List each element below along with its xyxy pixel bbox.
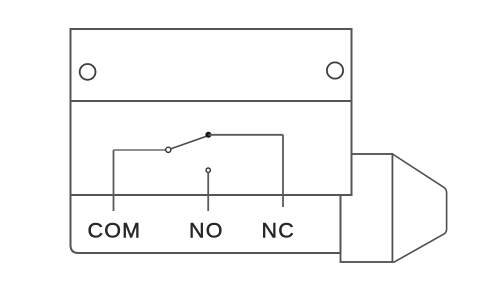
wire NC vertical — [282, 135, 284, 207]
mounting hole left — [80, 64, 96, 80]
switch lever — [171, 136, 207, 149]
NO contact circle — [206, 168, 210, 172]
wire COM horizontal — [114, 149, 166, 151]
terminal block (rounded bottom box) — [71, 195, 341, 253]
actuator bracket (right rectangle) — [341, 154, 393, 262]
wire NC horizontal — [208, 134, 283, 136]
wire NO vertical — [207, 173, 209, 211]
actuator cone (bullet shape) — [393, 154, 447, 262]
svg-text:COM: COM — [88, 219, 142, 243]
svg-text:NO: NO — [189, 219, 224, 243]
svg-text:NC: NC — [262, 219, 295, 243]
switch pivot contact — [166, 147, 171, 152]
wire COM vertical — [113, 150, 115, 211]
junction dot (NC contact) — [205, 132, 211, 138]
switch body lower section — [71, 101, 352, 195]
switch body top plate — [71, 29, 352, 101]
mounting hole right — [327, 62, 343, 78]
